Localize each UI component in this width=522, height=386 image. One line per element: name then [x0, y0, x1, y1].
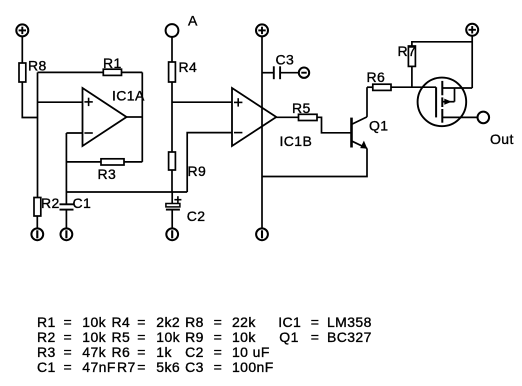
- svg-text:R3: R3: [98, 166, 117, 182]
- wire R8 bottom jog: [22, 82, 37, 118]
- node line left divider: [37, 72, 39, 197]
- wire R7 top: [412, 42, 472, 46]
- resistor R8: [19, 58, 47, 83]
- supply V+ IC1B: [256, 24, 268, 36]
- wire long bottom net: [66, 191, 187, 193]
- wire R3 right lead: [124, 161, 142, 163]
- wire V+ right rail: [471, 36, 473, 88]
- wire R9 bottom: [171, 170, 173, 192]
- wire -input IC1A: [66, 132, 82, 134]
- wire Q1 collector: [366, 87, 368, 117]
- terminal minus C3: [299, 68, 309, 78]
- wire IC1B output: [276, 116, 298, 118]
- svg-text:C3: C3: [276, 52, 295, 68]
- svg-text:C2: C2: [187, 208, 206, 224]
- terminal Out: [478, 112, 514, 147]
- resistor R4: [169, 59, 198, 82]
- op-amp IC1A: [83, 88, 145, 147]
- wire R3 left lead: [66, 161, 101, 163]
- svg-text:R1: R1: [103, 55, 122, 71]
- wire R7 bottom: [411, 66, 413, 87]
- wire R4 to R9: [171, 82, 173, 152]
- svg-text:R5: R5: [292, 100, 311, 116]
- wire top to R1: [38, 71, 104, 73]
- wire R5 to Q1 base: [317, 117, 352, 133]
- svg-text:R7: R7: [398, 43, 417, 59]
- mosfet Q2 body circle: [418, 78, 467, 127]
- node A: [166, 13, 198, 37]
- wire collector to R6: [367, 86, 373, 88]
- svg-text:R1=10kR4=2k2R8=22kIC1=LM358: R1=10kR4=2k2R8=22kIC1=LM358: [37, 314, 372, 330]
- mosfet channel dashes: [441, 81, 443, 123]
- capacitor C2: [166, 192, 206, 228]
- wire IC1B power rail: [261, 36, 263, 228]
- svg-text:Q1: Q1: [369, 118, 388, 134]
- wire feedback bottom: [262, 148, 367, 176]
- svg-text:C1: C1: [73, 195, 92, 211]
- resistor R1: [103, 55, 122, 76]
- svg-text:IC1A: IC1A: [112, 88, 145, 104]
- svg-text:C1=47nFR7=5k6C3=100nF: C1=47nFR7=5k6C3=100nF: [37, 359, 274, 375]
- svg-text:IC1B: IC1B: [280, 133, 313, 149]
- wire A to R4: [171, 37, 173, 62]
- supply V+ left: [16, 24, 28, 36]
- svg-text:A: A: [188, 13, 198, 29]
- wire IC1A output: [127, 116, 143, 118]
- resistor R3: [98, 159, 125, 182]
- svg-text:R9: R9: [188, 163, 207, 179]
- svg-text:R4: R4: [179, 59, 198, 75]
- wire +input IC1A: [38, 101, 83, 103]
- ground C2: [166, 228, 178, 240]
- svg-text:R3=47kR6=1kC2=10 uF: R3=47kR6=1kC2=10 uF: [37, 344, 270, 360]
- svg-text:Out: Out: [490, 131, 514, 147]
- mosfet substrate arrow: [442, 88, 454, 105]
- wire -input riser IC1B: [187, 133, 232, 192]
- svg-text:R2: R2: [41, 195, 60, 211]
- wire +input IC1B: [172, 101, 232, 103]
- ground R2: [31, 228, 43, 240]
- svg-text:R2=10kR5=10kR9=10kQ1=BC327: R2=10kR5=10kR9=10kQ1=BC327: [37, 329, 372, 345]
- resistor R9: [169, 152, 207, 179]
- capacitor C1: [60, 195, 92, 228]
- wire minus node vertical: [65, 133, 67, 204]
- svg-text:R8: R8: [28, 58, 47, 74]
- mosfet gate line: [435, 87, 437, 117]
- supply V+ right: [466, 24, 478, 36]
- ground IC1B: [256, 228, 268, 240]
- op-amp IC1B: [232, 88, 312, 149]
- svg-text:R6: R6: [367, 69, 386, 85]
- resistor R6: [367, 69, 392, 90]
- wire R1 to output node: [122, 71, 143, 73]
- capacitor C3: [262, 52, 299, 80]
- transistor Q1: [352, 117, 389, 149]
- wire mosfet drain to out: [442, 116, 477, 118]
- wire mosfet source to V+: [442, 87, 472, 89]
- resistor R7: [398, 43, 417, 66]
- wire output node vertical: [141, 72, 143, 161]
- resistor R2: [34, 195, 60, 228]
- ground C1: [61, 228, 73, 240]
- wire V+ to R8: [21, 36, 23, 63]
- resistor R5: [292, 100, 317, 121]
- wire gate net: [391, 86, 436, 88]
